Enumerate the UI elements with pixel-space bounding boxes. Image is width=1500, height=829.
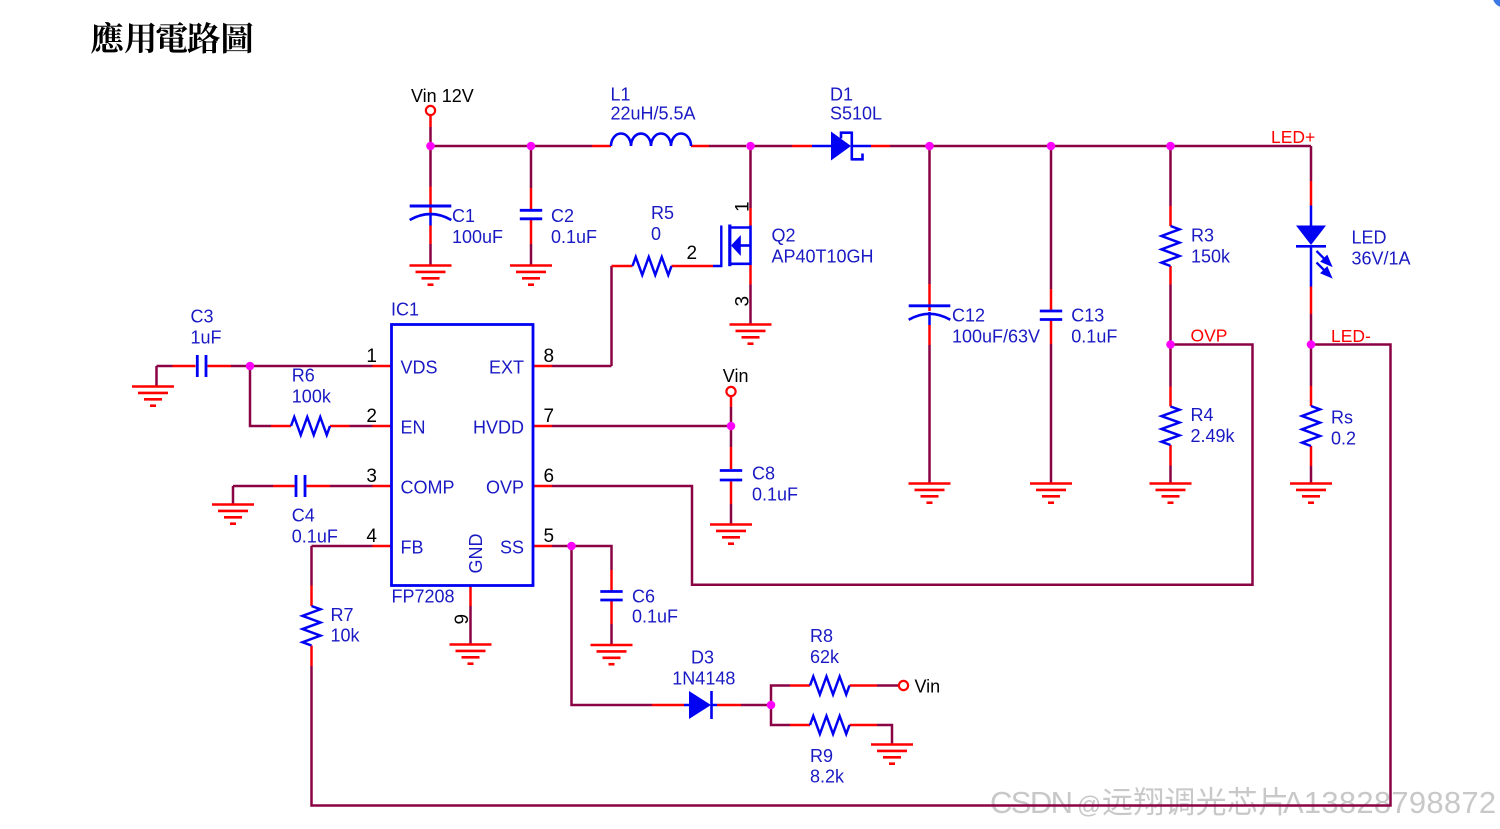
svg-text:C1: C1 <box>452 206 475 226</box>
svg-text:HVDD: HVDD <box>473 418 524 438</box>
svg-text:100uF/63V: 100uF/63V <box>952 326 1040 346</box>
svg-text:FP7208: FP7208 <box>392 587 455 607</box>
diode D3 leads <box>652 704 684 707</box>
ground C1 <box>410 264 452 267</box>
svg-text:1: 1 <box>366 346 377 367</box>
svg-text:1N4148: 1N4148 <box>672 668 735 688</box>
svg-text:S510L: S510L <box>830 103 882 123</box>
svg-text:62k: 62k <box>810 647 840 667</box>
svg-text:L1: L1 <box>611 84 631 104</box>
wire D3 node to R9 <box>771 705 790 725</box>
wire EXT to R5 <box>533 365 552 368</box>
wire Q2 source to ground <box>749 265 752 285</box>
svg-text:C4: C4 <box>292 506 315 526</box>
wire R3 branch <box>1169 146 1172 206</box>
svg-text:R3: R3 <box>1191 226 1214 246</box>
capacitor C13 <box>1040 310 1062 313</box>
capacitor C8 <box>720 469 742 472</box>
resistor R5 <box>633 257 672 275</box>
capacitor C6 <box>600 590 622 593</box>
svg-text:OVP: OVP <box>1191 326 1228 346</box>
wire C8 branch <box>730 426 733 447</box>
wire Rs branch <box>1310 345 1313 387</box>
node C2 rail <box>527 142 536 151</box>
svg-text:R8: R8 <box>810 626 833 646</box>
svg-text:FB: FB <box>401 538 424 558</box>
wire HVDD to Vin <box>533 425 552 428</box>
svg-text:0.1uF: 0.1uF <box>292 527 338 547</box>
svg-text:2: 2 <box>366 406 377 427</box>
svg-text:COMP: COMP <box>401 478 455 498</box>
watermark CSDN @远翔调光芯片A13828798872 <box>990 785 1498 822</box>
svg-text:9: 9 <box>452 614 473 625</box>
ground C6 <box>591 644 633 647</box>
node R3 rail <box>1166 142 1175 151</box>
capacitor C2 <box>520 209 542 212</box>
resistor R6 <box>291 417 330 435</box>
svg-text:1: 1 <box>733 201 754 212</box>
svg-text:GND: GND <box>466 534 486 574</box>
transistor Q2 MOSFET <box>713 225 751 267</box>
svg-text:VDS: VDS <box>401 358 438 378</box>
resistor R4 <box>1162 407 1180 446</box>
ground R9 <box>871 743 913 746</box>
svg-text:IC1: IC1 <box>391 300 419 320</box>
svg-text:EXT: EXT <box>489 358 524 378</box>
capacitor C12 <box>909 304 951 307</box>
svg-text:Vin: Vin <box>915 677 941 697</box>
svg-text:Rs: Rs <box>1331 408 1353 428</box>
svg-text:0.1uF: 0.1uF <box>632 607 678 627</box>
svg-text:LED+: LED+ <box>1271 127 1315 147</box>
svg-text:R7: R7 <box>331 605 354 625</box>
port Vin 12V <box>426 106 435 115</box>
ground Rs <box>1290 482 1332 485</box>
wire C13 branch <box>1050 146 1053 289</box>
svg-text:C13: C13 <box>1071 305 1104 325</box>
node Vin rail <box>426 142 435 151</box>
wire main rail Vin to LED+ <box>431 145 531 148</box>
ground R4 <box>1150 482 1192 485</box>
wire Vin port drop <box>429 127 432 146</box>
svg-text:8.2k: 8.2k <box>810 767 845 787</box>
svg-text:D1: D1 <box>830 84 853 104</box>
svg-text:10k: 10k <box>331 626 361 646</box>
inductor L1 leads <box>592 145 611 148</box>
node Q2 drain rail <box>746 142 755 151</box>
ground C13 <box>1030 482 1072 485</box>
svg-text:Q2: Q2 <box>772 226 796 246</box>
svg-text:100k: 100k <box>292 387 332 407</box>
wire R4 branch <box>1169 345 1172 387</box>
ground C12 <box>909 482 951 485</box>
resistor R8 <box>810 677 850 695</box>
node C3 R6 <box>246 362 255 371</box>
IC1 FP7208 body <box>392 325 534 586</box>
svg-text:0.2: 0.2 <box>1331 429 1356 449</box>
blue corner button <box>1493 0 1500 8</box>
svg-text:Vin 12V: Vin 12V <box>411 86 474 106</box>
wire D3 node to R8 <box>771 686 790 706</box>
svg-text:2: 2 <box>687 243 698 264</box>
node D3 R8 R9 <box>767 701 776 710</box>
port Vin HVDD <box>726 387 735 396</box>
wire SS down to D3 <box>572 546 653 705</box>
diode D3 <box>689 691 711 719</box>
node SS <box>567 542 576 551</box>
capacitor C4 <box>295 475 298 497</box>
wire pin6 OVP stub <box>533 485 552 488</box>
node C12 rail <box>925 142 934 151</box>
svg-text:0: 0 <box>651 224 661 244</box>
svg-text:OVP: OVP <box>486 478 524 498</box>
wire C3 ground stub <box>155 366 158 387</box>
svg-text:C8: C8 <box>752 464 775 484</box>
ground C2 <box>510 264 552 267</box>
svg-text:6: 6 <box>544 466 555 487</box>
inductor L1 <box>611 133 691 146</box>
svg-text:LED-: LED- <box>1331 326 1371 346</box>
svg-text:0.1uF: 0.1uF <box>1071 326 1117 346</box>
svg-text:C12: C12 <box>952 305 985 325</box>
svg-text:AP40T10GH: AP40T10GH <box>772 247 874 267</box>
ground C8 <box>710 523 752 526</box>
wire R7 feedback <box>310 646 313 667</box>
wire C4 ground stub <box>232 486 235 505</box>
wire SS to C6 <box>572 546 612 570</box>
wire R6 branch <box>250 366 271 426</box>
svg-text:22uH/5.5A: 22uH/5.5A <box>611 103 696 123</box>
resistor R3 <box>1162 226 1180 266</box>
wire pin5 SS node <box>533 545 552 548</box>
svg-text:0.1uF: 0.1uF <box>752 485 798 505</box>
svg-text:SS: SS <box>500 538 524 558</box>
diode D1 leads <box>792 145 812 148</box>
title 應用電路圖 <box>91 22 252 54</box>
wire C2 branch <box>530 146 533 188</box>
svg-text:100uF: 100uF <box>452 227 503 247</box>
svg-text:7: 7 <box>544 406 555 427</box>
svg-text:R4: R4 <box>1191 405 1214 425</box>
ground C4 <box>212 503 254 506</box>
resistor R7 <box>303 606 321 646</box>
ground Q2 <box>730 323 772 326</box>
svg-text:Vin: Vin <box>723 366 749 386</box>
LED arrows <box>1317 251 1331 277</box>
wire Vin port HVDD <box>730 397 733 408</box>
wire C4 to pin3 <box>233 485 273 488</box>
svg-text:2.49k: 2.49k <box>1191 426 1236 446</box>
svg-text:36V/1A: 36V/1A <box>1352 249 1411 269</box>
wire C3 node to pin1 <box>157 365 173 368</box>
svg-text:LED: LED <box>1352 228 1387 248</box>
capacitor C1 <box>410 205 452 208</box>
wire Q2 drain <box>749 146 752 208</box>
svg-text:EN: EN <box>401 418 426 438</box>
svg-text:D3: D3 <box>691 647 714 667</box>
node C13 rail <box>1047 142 1056 151</box>
wire IC GND pin9 <box>469 586 472 607</box>
svg-text:3: 3 <box>733 296 754 307</box>
wire LED branch <box>1310 146 1313 181</box>
svg-text:3: 3 <box>366 466 377 487</box>
svg-text:CSDN: CSDN <box>990 785 1071 820</box>
wire OVP net <box>552 345 1253 585</box>
diode D1 schottky <box>831 132 851 161</box>
svg-text:R9: R9 <box>810 746 833 766</box>
node LED- <box>1307 340 1316 349</box>
wire LED- return loop <box>312 345 1391 806</box>
svg-text:C6: C6 <box>632 587 655 607</box>
capacitor C3 <box>196 355 199 377</box>
node OVP <box>1166 340 1175 349</box>
svg-text:4: 4 <box>366 526 377 547</box>
resistor R9 <box>810 716 850 734</box>
ground C3 <box>132 385 174 388</box>
wire C1 branch <box>429 146 432 187</box>
node HVDD Vin <box>727 422 736 431</box>
svg-text:5: 5 <box>544 526 555 547</box>
resistor Rs <box>1302 406 1320 446</box>
svg-text:C3: C3 <box>191 307 214 327</box>
svg-text:0.1uF: 0.1uF <box>551 227 597 247</box>
resistor R5 leads <box>612 265 633 268</box>
wire C12 branch <box>928 146 931 284</box>
ground pin9 <box>450 643 492 646</box>
LED diode <box>1296 226 1326 246</box>
svg-text:R6: R6 <box>292 366 315 386</box>
svg-text:1uF: 1uF <box>191 328 222 348</box>
svg-text:R5: R5 <box>651 203 674 223</box>
port Vin R8 <box>899 681 908 690</box>
svg-text:8: 8 <box>544 346 555 367</box>
svg-text:150k: 150k <box>1191 247 1231 267</box>
svg-text:C2: C2 <box>551 206 574 226</box>
